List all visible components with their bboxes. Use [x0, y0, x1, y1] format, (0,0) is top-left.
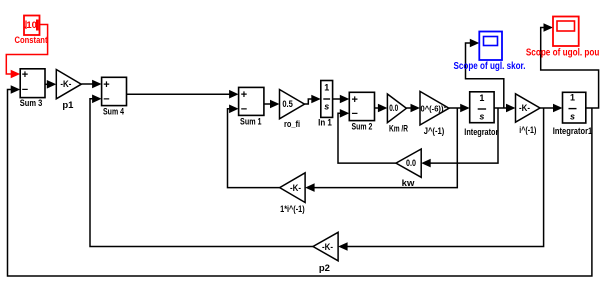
- wire: p2 gain output left and up into Sum 4 minus input: [90, 99, 313, 247]
- svg-text:−: −: [22, 84, 28, 96]
- svg-text:1: 1: [570, 93, 575, 103]
- svg-text:Sum 3: Sum 3: [20, 98, 43, 109]
- wire: Km/R gain output to J^(-1) gain: [406, 107, 412, 109]
- gain i^(-1): [516, 94, 541, 122]
- svg-text:kw: kw: [402, 178, 415, 189]
- svg-text:0.0: 0.0: [389, 103, 398, 113]
- svg-text:J^(-1): J^(-1): [424, 126, 445, 137]
- svg-text:Constant: Constant: [15, 35, 49, 46]
- svg-text:Integrator1: Integrator1: [553, 126, 593, 137]
- wire: p2 feedback tap from node after i^(-1) gain down to p2 gain input: [347, 108, 544, 247]
- svg-text:−: −: [103, 93, 109, 105]
- scope block Scope of ugol. pou (red): [553, 17, 579, 47]
- svg-text:Scope of ugol. pou: Scope of ugol. pou: [526, 48, 600, 59]
- wire: kw gain output left and up into Sum 2 minus input: [338, 113, 396, 163]
- sum block Sum 3: [20, 69, 45, 98]
- svg-text:+: +: [103, 79, 109, 91]
- wire: Integrator output to i^(-1) gain: [494, 107, 507, 109]
- wire: red constant output down and left into Sum 3 plus input: [6, 25, 47, 75]
- svg-text:p2: p2: [319, 263, 330, 274]
- sum block Sum 4: [102, 77, 127, 105]
- svg-text:+: +: [241, 89, 247, 101]
- gain J^(-1) (0^(-6)): [420, 91, 449, 125]
- svg-text:Sum 4: Sum 4: [103, 107, 125, 118]
- svg-text:−: −: [352, 108, 358, 120]
- svg-text:s: s: [570, 111, 575, 121]
- svg-text:p1: p1: [62, 100, 74, 111]
- integrator block Integrator: [470, 92, 494, 123]
- svg-text:0^(-6))°: 0^(-6))°: [421, 103, 448, 113]
- constant block (red, value .10): [24, 16, 40, 36]
- sum block Sum 1: [239, 87, 264, 115]
- wire: 1*i^(-1) gain output left and up into Sum 1 minus input: [228, 109, 280, 188]
- gain kw (0.0, points left): [396, 149, 421, 177]
- gain p2 (points left): [313, 232, 338, 260]
- svg-text:0.5: 0.5: [282, 99, 293, 109]
- gain 1*i^(-1) (points left): [280, 173, 305, 203]
- wire: ro_fi gain output with jog up into In 1 integrator: [305, 99, 314, 104]
- sum block Sum 2: [349, 92, 374, 120]
- wire: Sum 1 output to ro_fi gain: [264, 103, 272, 105]
- wire: Integrator1 output right, up and left into Scope of ugol. pou input: [541, 28, 599, 109]
- svg-text:-K-: -K-: [322, 242, 333, 253]
- scope block Scope of ugl. skor. (blue): [479, 32, 502, 61]
- wire: i^(-1) gain output to Integrator1: [540, 107, 555, 109]
- wire: Sum 4 output to Sum 1 plus input: [127, 93, 232, 95]
- wire: Sum 3 output to p1 gain: [45, 83, 49, 85]
- wire: p1 gain output to Sum 4 plus input: [81, 83, 94, 85]
- svg-text:i^(-1): i^(-1): [519, 125, 536, 136]
- gain ro_fi (0.5): [280, 90, 305, 119]
- wire: Integrator output node tap down to kw gain input: [430, 108, 498, 163]
- svg-text:0.0: 0.0: [406, 158, 416, 168]
- wire: Integrator input node tap down to 1*i^(-1) gain input: [314, 108, 457, 188]
- wire: Sum 2 output to Km/R gain: [375, 107, 380, 109]
- svg-text:-K-: -K-: [519, 103, 530, 114]
- svg-text:+: +: [352, 94, 358, 106]
- svg-text:Sum 2: Sum 2: [352, 122, 373, 133]
- svg-text:ro_fi: ro_fi: [284, 119, 300, 130]
- svg-text:s: s: [479, 112, 484, 122]
- svg-text:Scope of ugl. skor.: Scope of ugl. skor.: [454, 61, 526, 72]
- svg-text:In 1: In 1: [318, 118, 332, 129]
- svg-text:1*i^(-1): 1*i^(-1): [280, 204, 305, 215]
- svg-text:−: −: [241, 103, 247, 115]
- gain Km /R (0.0): [387, 94, 406, 123]
- integrator block In 1: [321, 81, 333, 118]
- svg-text:s: s: [324, 102, 329, 112]
- svg-text:-K-: -K-: [290, 183, 301, 194]
- svg-text:1: 1: [324, 83, 329, 93]
- svg-text:+: +: [22, 69, 28, 81]
- wire: In 1 output to Sum 2 plus input: [333, 98, 342, 100]
- svg-text:1: 1: [479, 93, 484, 103]
- svg-text:Integrator: Integrator: [464, 127, 498, 138]
- wire: J^(-1) gain output to Integrator: [449, 107, 462, 109]
- gain p1: [56, 70, 81, 99]
- svg-text:-K-: -K-: [60, 79, 71, 90]
- svg-text:Sum 1: Sum 1: [240, 117, 262, 128]
- integrator block Integrator1: [563, 92, 586, 123]
- svg-text:Km /R: Km /R: [389, 124, 408, 135]
- wire: Integrator output node up to Scope of ugl. skor. input: [466, 43, 504, 108]
- wire: outer position feedback loop from Integrator1 output node to Sum 3 minus input: [8, 90, 592, 277]
